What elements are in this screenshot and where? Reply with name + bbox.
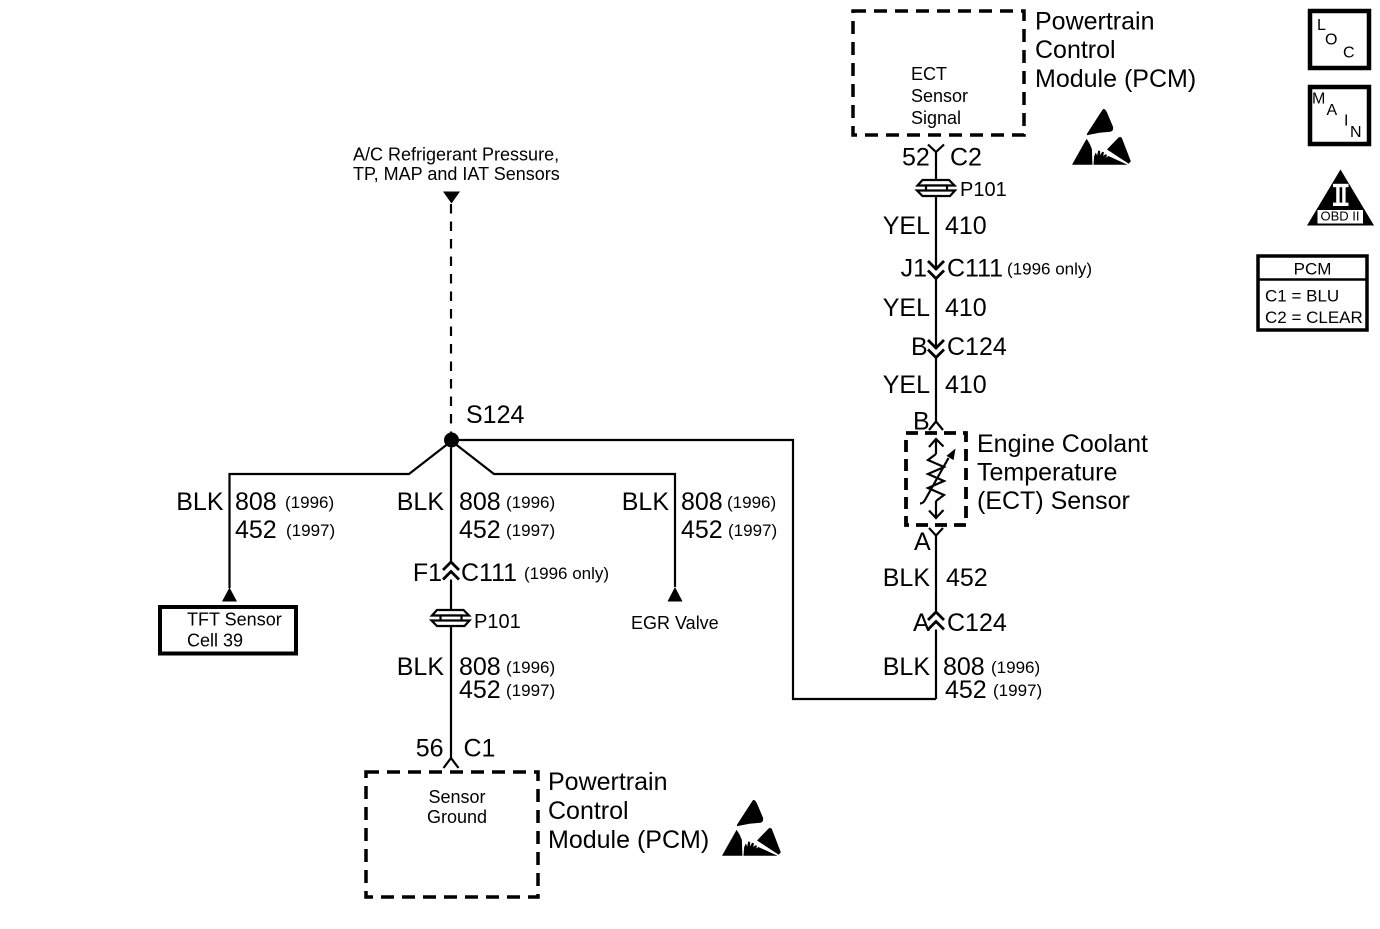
svg-text:(1996 only): (1996 only) (1007, 260, 1092, 279)
pin 52 fork connector (928, 145, 944, 153)
svg-text:(1996): (1996) (991, 658, 1040, 677)
arrow to EGR valve (668, 587, 683, 602)
thermistor RT1 top arrow (929, 439, 944, 447)
svg-text:PCM: PCM (1294, 260, 1332, 279)
svg-text:M: M (1312, 91, 1325, 108)
thermistor RT1 variable arrow (920, 458, 949, 504)
wire BLK 452 (935, 536, 937, 613)
arrow to A/C sensors (443, 192, 460, 204)
arrow to TFT sensor (222, 588, 237, 602)
connector C124 A chevrons (928, 612, 944, 620)
ECT sensor box (dashed) (906, 433, 966, 525)
svg-text:Control: Control (548, 797, 629, 825)
svg-text:808: 808 (235, 488, 277, 516)
svg-text:BLK: BLK (176, 488, 224, 516)
svg-text:TP, MAP and IAT Sensors: TP, MAP and IAT Sensors (353, 164, 560, 184)
svg-text:(1997): (1997) (286, 521, 335, 540)
svg-text:YEL: YEL (883, 294, 930, 322)
svg-text:(1997): (1997) (506, 521, 555, 540)
PCM box U1 (Sensor Ground) (366, 772, 538, 897)
svg-text:Temperature: Temperature (977, 459, 1117, 487)
svg-text:(1996): (1996) (506, 658, 555, 677)
wire left branch diagonal (230, 445, 448, 589)
svg-text:BLK: BLK (397, 653, 445, 681)
svg-text:Control: Control (1035, 36, 1116, 64)
ESD symbol top (1072, 109, 1131, 165)
svg-text:N: N (1350, 124, 1362, 141)
svg-text:C: C (1343, 45, 1355, 62)
TFT Sensor Cell 39 box (160, 607, 296, 654)
connector P101 top (917, 180, 955, 196)
svg-text:452: 452 (945, 676, 987, 704)
wire BLK to PCM ground (450, 626, 452, 758)
svg-text:Powertrain: Powertrain (1035, 8, 1155, 36)
wire YEL 410 seg4 (935, 358, 937, 422)
connector C111 J1 chevrons (928, 261, 944, 269)
splice node S124 (444, 433, 459, 448)
svg-text:C111: C111 (461, 559, 517, 587)
connector P101 bottom (432, 610, 470, 626)
svg-text:O: O (1325, 32, 1337, 49)
svg-text:BLK: BLK (883, 653, 931, 681)
svg-text:P101: P101 (474, 611, 521, 633)
svg-text:A: A (1327, 102, 1338, 119)
pin B fork connector (929, 422, 943, 431)
svg-text:808: 808 (459, 488, 501, 516)
svg-text:452: 452 (459, 516, 501, 544)
svg-text:BLK: BLK (397, 488, 445, 516)
svg-text:C124: C124 (947, 609, 1007, 637)
wire seg below F1 (450, 580, 452, 611)
svg-text:B: B (911, 333, 928, 361)
PCM connector legend table (1258, 256, 1367, 330)
svg-text:P101: P101 (960, 179, 1007, 201)
svg-text:I: I (1344, 113, 1348, 130)
svg-text:C111: C111 (947, 255, 1003, 283)
wire BLK 808/452 right (935, 630, 937, 700)
svg-text:(1996): (1996) (285, 493, 334, 512)
svg-text:BLK: BLK (622, 488, 670, 516)
svg-text:S124: S124 (466, 401, 524, 429)
svg-text:A: A (914, 528, 931, 556)
svg-text:Signal: Signal (911, 108, 961, 128)
svg-text:Engine Coolant: Engine Coolant (977, 430, 1148, 458)
svg-text:YEL: YEL (883, 212, 930, 240)
svg-text:Sensor: Sensor (911, 86, 968, 106)
svg-text:Powertrain: Powertrain (548, 768, 668, 796)
svg-text:J1: J1 (901, 255, 927, 283)
wire bottom run to S124 (459, 440, 936, 699)
thermistor RT1 zigzag (928, 454, 944, 501)
svg-text:452: 452 (946, 564, 988, 592)
svg-text:452: 452 (681, 516, 723, 544)
svg-text:56: 56 (416, 735, 444, 763)
connector C124 B chevrons (928, 340, 944, 348)
svg-text:TFT Sensor: TFT Sensor (187, 610, 282, 630)
svg-text:C1 = BLU: C1 = BLU (1265, 287, 1339, 306)
svg-text:(1997): (1997) (728, 521, 777, 540)
pin A fork connector (929, 528, 943, 536)
pin 56 fork connector (444, 758, 459, 768)
svg-text:YEL: YEL (883, 371, 930, 399)
svg-text:Ground: Ground (427, 807, 487, 827)
thermistor RT1 bottom arrow (935, 501, 937, 518)
MAIN legend box (1310, 87, 1369, 144)
svg-text:452: 452 (235, 516, 277, 544)
svg-text:A/C Refrigerant Pressure,: A/C Refrigerant Pressure, (353, 145, 559, 165)
svg-text:EGR Valve: EGR Valve (631, 613, 719, 633)
svg-text:(1996 only): (1996 only) (524, 564, 609, 583)
svg-text:808: 808 (681, 488, 723, 516)
ESD symbol bottom (722, 800, 781, 856)
svg-text:452: 452 (459, 676, 501, 704)
svg-text:ECT: ECT (911, 64, 947, 84)
wire right branch diagonal (456, 445, 675, 588)
PCM box U1 (ECT Sensor Signal) (853, 11, 1024, 135)
svg-text:410: 410 (945, 294, 987, 322)
wire YEL 410 seg2 (935, 196, 937, 269)
svg-text:F1: F1 (413, 559, 442, 587)
svg-text:Module (PCM): Module (PCM) (1035, 65, 1196, 93)
svg-text:410: 410 (945, 371, 987, 399)
svg-text:C2 = CLEAR: C2 = CLEAR (1265, 308, 1363, 327)
svg-text:C124: C124 (947, 333, 1007, 361)
svg-text:Sensor: Sensor (428, 787, 485, 807)
dashed wire to S124 (450, 204, 452, 433)
svg-text:Cell 39: Cell 39 (187, 631, 243, 651)
svg-text:(1996): (1996) (727, 493, 776, 512)
svg-text:(ECT) Sensor: (ECT) Sensor (977, 487, 1130, 515)
svg-text:410: 410 (945, 212, 987, 240)
svg-text:C1: C1 (464, 735, 496, 763)
svg-text:A: A (913, 609, 930, 637)
svg-text:OBD II: OBD II (1320, 209, 1359, 224)
svg-text:(1997): (1997) (506, 681, 555, 700)
svg-text:(1997): (1997) (993, 681, 1042, 700)
svg-text:Module (PCM): Module (PCM) (548, 826, 709, 854)
wire YEL 410 seg1 (935, 152, 937, 180)
wire YEL 410 seg3 (935, 279, 937, 349)
svg-text:BLK: BLK (883, 564, 931, 592)
LOC legend box (1310, 11, 1369, 68)
wire middle branch (450, 448, 452, 563)
svg-text:52: 52 (902, 144, 930, 172)
connector C111 F1 chevrons (443, 562, 459, 570)
svg-text:(1996): (1996) (506, 493, 555, 512)
OBD II symbol (1307, 170, 1374, 226)
svg-text:C2: C2 (950, 144, 982, 172)
